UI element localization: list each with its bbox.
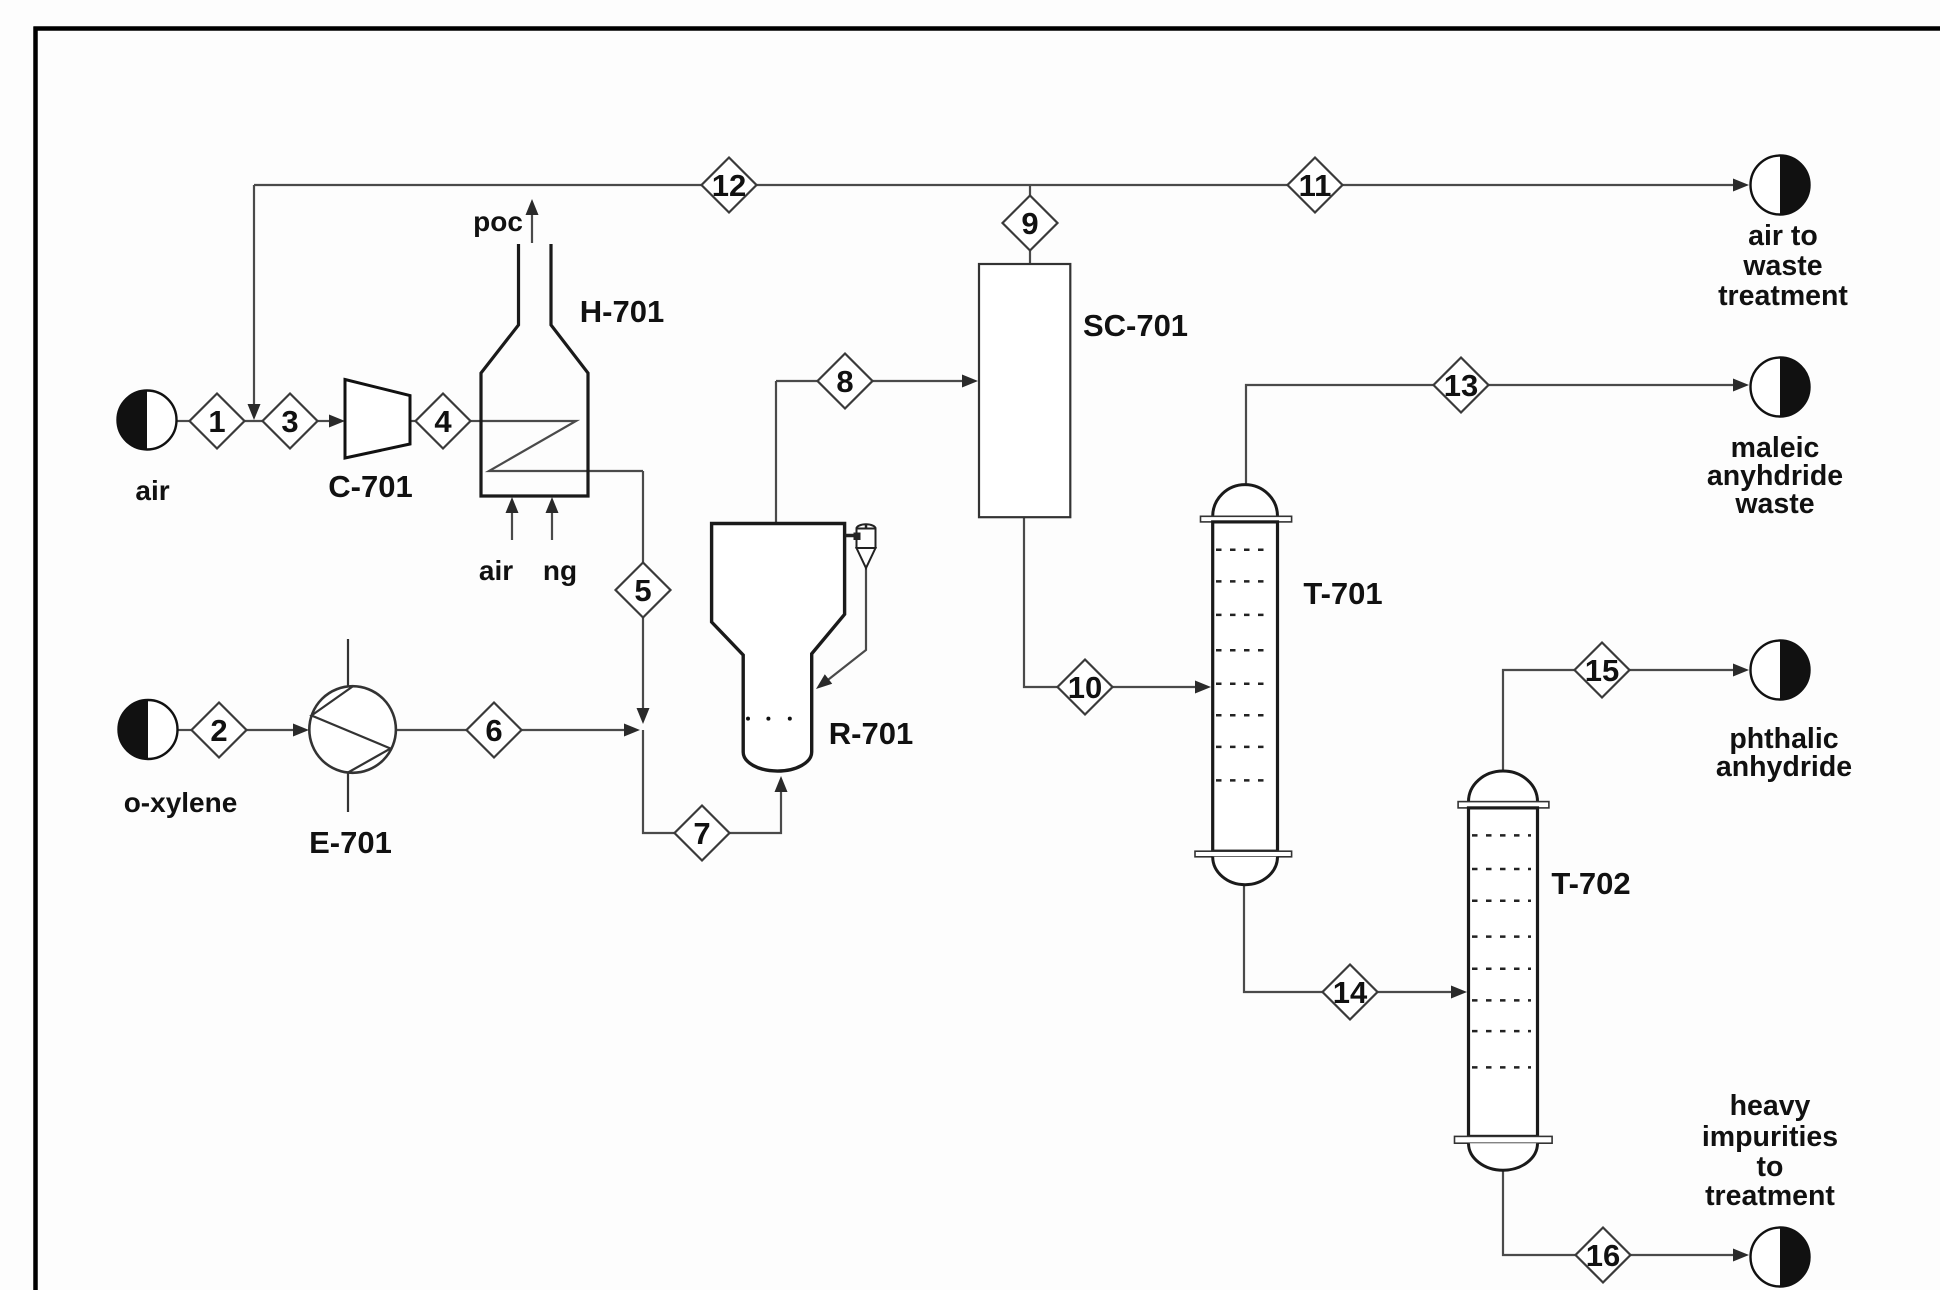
svg-text:9: 9 xyxy=(1021,206,1038,241)
svg-text:8: 8 xyxy=(836,364,853,399)
svg-text:air to: air to xyxy=(1748,220,1818,252)
svg-text:impurities: impurities xyxy=(1702,1121,1838,1153)
svg-text:to: to xyxy=(1757,1151,1784,1183)
svg-text:o-xylene: o-xylene xyxy=(124,787,238,818)
svg-text:waste: waste xyxy=(1734,488,1814,520)
svg-text:C-701: C-701 xyxy=(328,469,412,504)
svg-text:16: 16 xyxy=(1586,1238,1620,1273)
svg-text:5: 5 xyxy=(634,573,651,608)
svg-text:T-702: T-702 xyxy=(1551,866,1630,901)
svg-text:air: air xyxy=(135,475,169,506)
svg-text:3: 3 xyxy=(281,404,298,439)
svg-text:E-701: E-701 xyxy=(309,825,392,860)
svg-text:air: air xyxy=(479,555,513,586)
svg-text:14: 14 xyxy=(1333,975,1368,1010)
svg-text:2: 2 xyxy=(210,713,227,748)
svg-text:7: 7 xyxy=(693,816,710,851)
svg-text:treatment: treatment xyxy=(1705,1180,1835,1212)
svg-text:6: 6 xyxy=(485,713,502,748)
svg-text:T-701: T-701 xyxy=(1303,576,1382,611)
svg-text:anhydride: anhydride xyxy=(1716,751,1852,783)
svg-text:ng: ng xyxy=(543,555,577,586)
svg-text:heavy: heavy xyxy=(1730,1090,1811,1122)
svg-text:1: 1 xyxy=(208,404,225,439)
svg-text:10: 10 xyxy=(1068,670,1102,705)
svg-text:H-701: H-701 xyxy=(580,294,664,329)
svg-text:R-701: R-701 xyxy=(829,716,913,751)
svg-text:waste: waste xyxy=(1742,250,1822,282)
svg-text:SC-701: SC-701 xyxy=(1083,308,1188,343)
svg-text:15: 15 xyxy=(1585,653,1619,688)
svg-text:treatment: treatment xyxy=(1718,280,1848,312)
svg-text:13: 13 xyxy=(1444,368,1478,403)
svg-text:12: 12 xyxy=(712,168,746,203)
svg-text:11: 11 xyxy=(1299,168,1332,203)
svg-text:4: 4 xyxy=(434,404,452,439)
svg-text:poc: poc xyxy=(473,206,523,237)
